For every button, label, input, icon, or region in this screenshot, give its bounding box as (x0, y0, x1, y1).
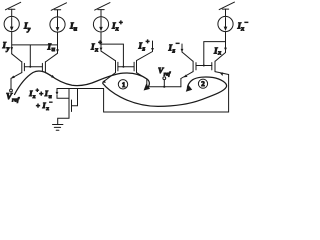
node gate tap pair B (122, 66, 124, 68)
wire sum arrow down (56, 89, 69, 99)
supply rail symbol 2 (51, 3, 66, 17)
svg-text:x: x (240, 26, 245, 33)
node Vref terminal (left) (10, 89, 13, 92)
label Iu (mid) (47, 41, 56, 53)
svg-text:y: y (6, 46, 10, 53)
wire drain M1 diagonal (12, 54, 22, 62)
svg-text:ref: ref (12, 97, 20, 104)
svg-text:+: + (146, 39, 150, 46)
label Vref (left) (6, 91, 20, 104)
wire feedback rectangle (104, 75, 229, 113)
wire Ix+ with current arrow (100, 32, 103, 51)
current source Ix- (218, 16, 233, 31)
supply rail symbol 1 (5, 2, 20, 16)
label Ix- (top) (237, 20, 249, 33)
supply rail symbol 3 (95, 3, 110, 17)
wire sum rail left (57, 88, 104, 90)
wire Ix- down with Ix current arrow (224, 32, 227, 53)
wire gate tap pair B jog from Ix+ (101, 44, 123, 67)
svg-text:u: u (74, 26, 78, 33)
transistor M2 (pair A right) (42, 62, 45, 73)
transistor M3 (pair B left) (116, 61, 118, 73)
wire gate tap pair C up and over to Ix- wire (204, 42, 226, 66)
svg-text:2: 2 (201, 80, 205, 88)
wire Vref rail (middle) (147, 86, 181, 88)
label sum line1 Ix+ + Iu (28, 88, 51, 100)
svg-text:x: x (32, 94, 36, 100)
svg-text:−: − (49, 100, 52, 106)
wire gate line pair B (118, 66, 134, 68)
wire drain M6 diagonal (215, 53, 226, 62)
wire source M2 stub (45, 73, 55, 79)
node gate tap pair C (203, 65, 205, 67)
svg-text:y: y (27, 26, 31, 33)
wire Iy with current arrow (10, 32, 13, 54)
wire drain M4 to Iz+ arrow (137, 41, 153, 61)
svg-text:x: x (45, 106, 49, 112)
wire gate line pair A (24, 66, 42, 68)
wire source M6 to rectangle right edge (215, 72, 229, 76)
supply rail symbol 4 (219, 2, 234, 16)
transistor M1 (pair A left) (22, 62, 25, 73)
node gate tap pair A (29, 66, 31, 68)
wire source M4 riser to rail (137, 73, 147, 87)
svg-text:−: − (245, 20, 249, 27)
wire gate line pair C (196, 65, 212, 67)
wire drain M3 diagonal (101, 51, 116, 61)
wire Iu with current arrow (56, 32, 59, 53)
wire Iz- current arrow into drain M5 (181, 44, 194, 61)
svg-text:z: z (142, 46, 146, 53)
loop arrow 1 (swoosh across pairs A and B) (15, 71, 151, 94)
transistor M4 (pair B right) (134, 61, 136, 73)
label Iz+ (138, 39, 150, 53)
wire source M1 to Vref (11, 73, 22, 90)
label sum line2 + Ix- (36, 100, 52, 112)
wire Iz+ current arrow (151, 48, 154, 51)
current source Ix+ (93, 17, 108, 32)
label Iy (top) (23, 20, 31, 33)
label Iz- (168, 41, 180, 55)
svg-text:x: x (94, 47, 99, 54)
svg-text:1: 1 (122, 81, 126, 89)
label Iy (mid) (2, 40, 10, 53)
current source Iu (50, 17, 65, 32)
node loop number 2 (198, 79, 207, 88)
svg-text:+: + (36, 102, 40, 110)
svg-text:u: u (52, 46, 56, 53)
transistor M5 (pair C left) (193, 61, 196, 71)
node Vref terminal (middle) (163, 77, 166, 88)
label Ix (right) (213, 46, 222, 57)
label Ix+ (top) (111, 20, 123, 33)
svg-text:−: − (176, 41, 180, 48)
svg-text:+: + (98, 40, 102, 47)
transistor M7 (bottom, diode connected) (69, 89, 78, 115)
label Vref (middle) (158, 66, 171, 78)
wire source M7 to ground (58, 115, 69, 125)
svg-text:+: + (119, 20, 123, 27)
current source Iy (top circle with arrow) (4, 16, 19, 31)
node loop number 1 (118, 80, 127, 89)
svg-text:+: + (39, 90, 43, 98)
wire source M5 riser to rail (181, 72, 193, 87)
wire gate tap pair A up and over joining Iy and Iu wires (12, 45, 57, 67)
svg-text:z: z (172, 48, 176, 55)
svg-text:x: x (115, 26, 120, 33)
label Ix+ (mid) (90, 40, 102, 54)
svg-text:ref: ref (164, 71, 172, 77)
wire drain M2 diagonal (45, 53, 57, 62)
ground (53, 125, 63, 131)
loop arrow 2 (big ellipse) (103, 77, 227, 106)
label Iu (top) (69, 21, 78, 33)
transistor M6 (pair C right) (212, 61, 215, 71)
wire source M3 down to rectangle corner (102, 73, 116, 83)
